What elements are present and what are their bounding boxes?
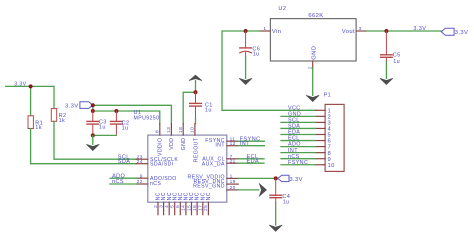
wire nCS stub [110,183,136,185]
pin 1 RESV_VDDIO (right) [187,174,238,181]
junction C2 top [114,109,118,113]
svg-text:INT: INT [240,141,250,147]
svg-text:17: 17 [198,205,204,211]
resistor R2 [51,109,66,124]
svg-text:1: 1 [263,26,266,32]
pin 10 REGOUT (top) [190,124,200,163]
svg-text:3.3V: 3.3V [65,104,79,110]
wire 3.3V rail top-left horizontal [6,85,54,87]
svg-text:3.3V: 3.3V [455,30,469,36]
svg-text:18: 18 [178,127,184,133]
wire RESV_VDDIO to 3.3V [238,177,275,179]
pin 2 GND stub [307,61,313,69]
svg-text:INT: INT [215,143,225,149]
svg-text:3.3V: 3.3V [413,26,426,32]
wire ADO stub [110,177,136,179]
wire R2 bottom to SCL row [54,121,136,159]
svg-text:19: 19 [230,179,236,185]
pin 21 AUX_DA (right) [202,158,239,167]
svg-text:GND: GND [312,46,318,60]
junction C1 top [194,90,198,94]
pin 11 FSYNC (right) [205,136,238,144]
wire Vin rail to VCC [222,31,316,110]
svg-text:1k: 1k [59,118,66,124]
wire C4 to ground [275,203,277,225]
pin 3 Vout stub [356,26,366,32]
pin 13 VDD (top) [166,124,175,150]
op IC U1 MPU9250 body [134,110,227,202]
pin 8 VDDIO (top) [154,124,163,156]
pin 24 SDA/SDI (left) [136,159,173,168]
svg-text:VDDIO: VDDIO [158,138,164,156]
svg-text:Vin: Vin [272,29,281,35]
P1 pin numbers 1-10 [328,108,335,168]
pin 18 GND (top) [178,124,187,151]
junction C5 top [384,29,388,33]
wire C6 to ground [245,57,247,79]
wire ground to C1 junction [195,81,197,93]
wire VDDIO rail [93,105,160,123]
junction flag tip [91,103,95,107]
wire C5 to ground [385,62,387,78]
svg-text:21: 21 [230,158,236,164]
svg-text:20: 20 [230,185,236,191]
ground right of pin 20 (pointing right) [259,184,266,197]
svg-text:10: 10 [190,127,196,133]
svg-text:NC: NC [206,192,212,200]
svg-text:24: 24 [137,159,143,165]
ground below C3 [86,144,99,150]
capacitor C5 [381,31,401,65]
ground below C5 [380,78,393,84]
pin 20 RESV_GND (right) [193,184,238,191]
svg-text:nCS: nCS [112,179,124,185]
pin 22 nCS (left) [136,179,161,187]
capacitor C3 [87,111,107,135]
wire Vout rail to 3.3V flag [366,30,441,32]
power flag 3.3V at RESV_VDDIO [278,175,303,183]
regulator U2 body [270,6,356,61]
wire U2 GND to ground [312,68,314,95]
wire GND pin to C1 junction [183,92,195,123]
svg-text:1u: 1u [253,51,260,57]
NC pins bottom of U1 [158,202,208,215]
junction C6 top [244,29,248,33]
svg-text:3.3V: 3.3V [289,177,303,183]
wire FSYNC from pin 11 [238,140,264,142]
svg-text:1u: 1u [99,124,106,130]
svg-text:1: 1 [230,174,233,180]
wire INT from pin 12 [238,145,264,147]
svg-text:AUX_DA: AUX_DA [202,161,225,167]
svg-text:5: 5 [170,205,176,208]
NC pin names [156,192,212,200]
P1 wires [281,116,316,164]
svg-text:2: 2 [153,205,159,208]
svg-text:EDA: EDA [247,158,260,164]
svg-text:10: 10 [328,163,335,169]
svg-text:16: 16 [192,205,198,211]
junction at 3.3V rail [29,84,33,88]
power flag 3.3V far right [441,28,468,36]
svg-text:FSYNC: FSYNC [288,160,308,166]
svg-text:3: 3 [158,205,164,208]
svg-text:12: 12 [230,141,236,147]
NC pin numbers [153,205,209,211]
wire junction drop to R1 [30,86,32,115]
junction C4 top [274,176,278,180]
pin 12 INT (right) [215,141,238,149]
capacitor C2 [111,111,130,135]
svg-text:6: 6 [175,205,181,208]
svg-text:REGOUT: REGOUT [193,137,199,162]
ground below U2 GND [306,95,319,101]
svg-text:Vout: Vout [342,29,355,35]
wire to R2 top [53,86,55,108]
capacitor C1 [190,92,213,118]
pin 19 RESV_DNC (right) [193,179,238,185]
power flag 3.3V mid-left [65,102,93,110]
svg-text:GND: GND [181,138,187,151]
wire RESV_GND to ground [238,189,258,191]
svg-text:1k: 1k [35,125,42,131]
svg-text:25: 25 [203,205,209,211]
pin 1 Vin stub [260,26,271,32]
svg-text:9: 9 [140,173,143,179]
svg-text:4: 4 [164,205,170,208]
wire R1 bottom to SDA row [31,129,137,164]
svg-text:3: 3 [359,26,362,32]
svg-text:1u: 1u [205,107,212,113]
wire C2 bottom to C3 bottom [93,134,117,136]
svg-text:1u: 1u [393,59,400,65]
wire to ground below C3 [92,135,94,144]
P1 pin stubs [316,110,326,164]
wire EDA from pin 21 [238,162,264,164]
wire VDD rail from flag [92,105,171,123]
junction C3 top [91,109,95,113]
svg-text:662K: 662K [308,13,323,19]
svg-text:1u: 1u [283,200,289,206]
wire ECL from pin 7 [238,158,264,160]
svg-text:SDA/SDI: SDA/SDI [150,162,174,168]
svg-text:C5: C5 [393,53,401,59]
resistor R1 [28,116,43,131]
svg-text:RESV_GND: RESV_GND [193,184,225,190]
pin 7 AUX_CL (right) [202,154,238,163]
connector P1 body [324,93,344,172]
svg-text:U2: U2 [278,6,286,12]
svg-text:8: 8 [154,130,160,133]
capacitor C4 [270,178,290,205]
svg-text:14: 14 [181,205,187,211]
svg-text:13: 13 [166,127,172,133]
svg-text:SDA: SDA [118,159,131,165]
junction C3 bottom [91,133,95,137]
svg-text:1u: 1u [122,125,129,131]
pin 9 ADO/SDO (left) [136,173,176,182]
svg-text:22: 22 [137,179,143,185]
svg-text:15: 15 [186,205,192,211]
ground above C1 (pointing up) [189,75,202,80]
pin 23 SCL/SCLK (left) [136,154,178,163]
capacitor C6 [240,31,260,57]
svg-text:VDD: VDD [169,138,175,150]
svg-text:MPU9250: MPU9250 [134,115,160,121]
svg-text:nCS: nCS [150,181,161,187]
ground below C6 [239,78,252,84]
svg-text:P1: P1 [324,93,331,99]
ground below C4 [269,225,282,231]
wire C1 bottom to REGOUT pin [195,118,197,124]
